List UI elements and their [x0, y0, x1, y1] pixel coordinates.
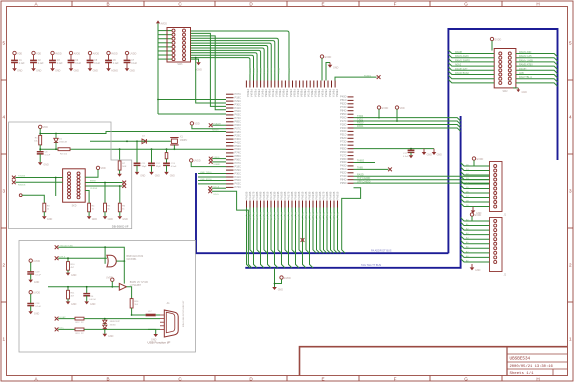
svg-text:PA16B: PA16B — [318, 191, 322, 199]
svg-text:PB03A: PB03A — [246, 89, 250, 97]
svg-text:PA16B: PA16B — [283, 191, 287, 199]
wire USB D- net — [198, 176, 226, 178]
svg-text:EVDD: EVDD — [475, 214, 482, 217]
svg-text:AD_B06: AD_B06 — [266, 212, 269, 221]
wire FUSE1 net — [335, 77, 377, 80]
wire — [127, 287, 132, 299]
power UVDD — [29, 291, 32, 294]
resistor R1 — [39, 135, 42, 145]
svg-text:4.5uF: 4.5uF — [171, 166, 177, 168]
svg-text:EVDD: EVDD — [477, 158, 484, 161]
power EVDD — [320, 55, 323, 58]
svg-text:0.1uF: 0.1uF — [38, 63, 44, 65]
svg-text:NXXD: NXXD — [110, 325, 116, 327]
power EVDD — [280, 276, 283, 279]
wire TXD — [15, 177, 62, 179]
wire — [166, 165, 168, 172]
wire — [158, 38, 172, 40]
wire — [104, 329, 106, 333]
svg-text:DB-9SKD I/F: DB-9SKD I/F — [112, 225, 129, 229]
svg-text:UVDD: UVDD — [106, 276, 113, 279]
svg-text:P40D: P40D — [340, 129, 347, 133]
wire — [89, 63, 91, 69]
svg-text:P28D: P28D — [340, 122, 347, 126]
svg-text:P73D: P73D — [340, 140, 347, 144]
svg-text:RAMD: RAMD — [519, 68, 527, 71]
group box DB-9SKD I/F — [9, 122, 132, 229]
ground — [28, 280, 33, 283]
svg-text:TA6B2: TA6B2 — [357, 160, 365, 163]
svg-text:SW2: SW2 — [503, 91, 509, 93]
svg-text:61XXXB1: 61XXXB1 — [127, 259, 138, 261]
wire — [158, 58, 172, 60]
svg-text:AD_B05: AD_B05 — [263, 212, 266, 221]
svg-text:PD09: PD09 — [255, 68, 257, 74]
wire bundle U1 right to J1 — [354, 175, 490, 177]
wire — [58, 257, 107, 259]
svg-text:P95D: P95D — [340, 181, 347, 185]
ground — [423, 149, 425, 152]
svg-text:PA05B: PA05B — [314, 191, 318, 199]
power UVDD — [111, 278, 114, 281]
svg-text:SW1: SW1 — [177, 63, 183, 66]
svg-text:GND: GND — [427, 153, 433, 156]
ground — [12, 68, 17, 71]
svg-text:PB03A: PB03A — [282, 89, 286, 97]
svg-text:UVDD: UVDD — [130, 52, 137, 55]
svg-text:P41C: P41C — [235, 106, 242, 110]
svg-text:AD_B00: AD_B00 — [245, 212, 248, 221]
svg-text:PB47A: PB47A — [260, 89, 264, 97]
svg-text:UVDD: UVDD — [33, 260, 40, 263]
svg-text:VDD: VDD — [43, 126, 48, 129]
svg-text:TAG_T4: TAG_T4 — [315, 212, 318, 221]
capacitor C17 — [410, 149, 412, 151]
svg-text:P41C: P41C — [235, 175, 242, 179]
svg-text:RAM8: RAM8 — [455, 51, 463, 54]
no-connect mark — [208, 186, 212, 190]
ground — [272, 287, 277, 290]
svg-text:P96C: P96C — [235, 158, 242, 162]
ground — [38, 162, 43, 165]
svg-text:GND: GND — [475, 269, 481, 272]
svg-text:PB58A: PB58A — [335, 89, 339, 97]
capacitor C16 — [83, 294, 90, 296]
svg-text:PD06: PD06 — [266, 68, 268, 74]
ground — [153, 334, 158, 337]
svg-text:2: 2 — [3, 263, 6, 268]
svg-text:RAM5 A7B0: RAM5 A7B0 — [519, 64, 533, 67]
wire — [136, 165, 138, 172]
wire USB D+ net — [198, 173, 226, 175]
svg-text:P07C: P07C — [235, 127, 242, 131]
wire — [67, 258, 69, 261]
net labels on fan wires — [248, 68, 289, 75]
svg-text:P62D: P62D — [340, 102, 347, 106]
svg-text:RAM1 SWR5: RAM1 SWR5 — [455, 59, 470, 62]
svg-text:CLKSK: CLKSK — [90, 188, 98, 190]
svg-text:GND: GND — [43, 164, 49, 167]
svg-text:P52C: P52C — [235, 144, 242, 148]
svg-text:GND: GND — [170, 175, 175, 177]
wire — [354, 161, 376, 163]
wire — [14, 63, 16, 69]
svg-text:VDD: VDD — [195, 123, 200, 126]
ground — [28, 311, 33, 314]
svg-text:P30C: P30C — [235, 137, 242, 141]
svg-text:GND: GND — [34, 313, 40, 316]
node — [19, 194, 22, 197]
svg-text:AVDD: AVDD — [111, 52, 118, 55]
bus address bus lower — [196, 173, 448, 253]
no-connect mark — [208, 189, 212, 193]
power UVDD — [190, 159, 193, 162]
svg-text:2000/05/21 13:30:16: 2000/05/21 13:30:16 — [510, 364, 554, 369]
svg-text:P73D: P73D — [340, 174, 347, 178]
connector X2 DIN — [63, 169, 86, 202]
capacitor C1 — [11, 60, 18, 62]
svg-text:PB36A: PB36A — [292, 89, 296, 97]
svg-text:PB25A: PB25A — [289, 89, 293, 97]
diode D3 — [104, 324, 106, 326]
svg-text:BNP4 AC1XX32: BNP4 AC1XX32 — [127, 255, 144, 258]
wire XTAL1 net — [90, 140, 171, 142]
capacitor C13 — [166, 159, 168, 164]
svg-text:5: 5 — [569, 41, 572, 46]
svg-text:PB81A: PB81A — [310, 89, 314, 97]
wire — [67, 287, 69, 291]
svg-text:PB69A: PB69A — [268, 89, 272, 97]
resistor R7 — [119, 149, 121, 161]
wire — [126, 63, 128, 69]
wire — [378, 109, 380, 117]
svg-text:PB25A: PB25A — [324, 89, 328, 97]
wire — [136, 141, 138, 163]
svg-text:GND: GND — [47, 218, 53, 221]
bus data bus lower — [245, 116, 460, 268]
resistor R4 — [88, 203, 91, 212]
wire — [84, 328, 160, 330]
svg-text:RAM2 B0A0: RAM2 B0A0 — [455, 72, 469, 75]
ground — [135, 172, 140, 175]
wire — [151, 149, 153, 163]
svg-text:UVDD: UVDD — [194, 160, 201, 163]
svg-text:PA61B: PA61B — [265, 191, 269, 199]
svg-text:PA61B: PA61B — [335, 191, 339, 199]
svg-text:UD+5: UD+5 — [214, 186, 220, 188]
wire — [22, 195, 44, 203]
svg-text:PA49B: PA49B — [293, 191, 297, 199]
svg-text:GND: GND — [17, 70, 23, 73]
no-connect mark — [55, 256, 59, 260]
ground — [433, 149, 435, 152]
svg-text:P84D: P84D — [340, 178, 347, 182]
wire — [108, 63, 110, 69]
svg-text:P63C: P63C — [235, 182, 242, 186]
wire — [39, 129, 41, 136]
svg-text:TAG_T1: TAG_T1 — [305, 212, 308, 221]
svg-text:AD_B12: AD_B12 — [287, 212, 290, 221]
svg-text:GND: GND — [155, 175, 160, 177]
svg-text:Sheets 1/1: Sheets 1/1 — [510, 371, 535, 376]
svg-text:P73D: P73D — [340, 105, 347, 109]
wire — [55, 178, 57, 197]
svg-text:RESET: RESET — [212, 130, 220, 132]
svg-text:UD-5: UD-5 — [214, 194, 220, 196]
svg-text:P29C: P29C — [235, 99, 242, 103]
svg-text:TAG_T0: TAG_T0 — [301, 212, 304, 221]
wire — [158, 30, 172, 32]
svg-text:RAM1 A0D: RAM1 A0D — [519, 51, 532, 54]
capacitor C4 — [68, 60, 75, 62]
resistor R10 — [67, 262, 70, 271]
svg-text:P85C: P85C — [235, 154, 242, 158]
svg-text:R2 10k: R2 10k — [60, 153, 68, 155]
svg-text:H: H — [536, 376, 539, 381]
wire — [52, 63, 54, 69]
wire — [119, 170, 121, 174]
wire to U1 left pin RXD — [196, 58, 226, 103]
svg-text:TAG_T2: TAG_T2 — [308, 212, 311, 221]
wire — [108, 55, 110, 61]
resistor R2 — [58, 148, 70, 151]
svg-text:P17D: P17D — [340, 119, 347, 123]
no-connect mark — [388, 167, 392, 171]
svg-text:P63C: P63C — [235, 113, 242, 117]
svg-text:GND: GND — [74, 70, 80, 73]
svg-text:PB58A: PB58A — [299, 89, 303, 97]
ground — [87, 216, 92, 219]
connector J2 — [490, 218, 503, 272]
svg-text:VBUS: VBUS — [214, 157, 220, 159]
power AVDD — [156, 20, 160, 23]
svg-text:AD_B07: AD_B07 — [270, 212, 273, 221]
connector SW2 — [494, 49, 516, 88]
svg-text:P40D: P40D — [340, 164, 347, 168]
connector J1 — [490, 162, 503, 212]
svg-text:AVDD: AVDD — [161, 23, 168, 26]
wire to U1 left pin — [157, 100, 159, 115]
svg-text:GND: GND — [108, 218, 114, 221]
ground — [118, 216, 123, 219]
svg-text:GND: GND — [122, 218, 128, 221]
wire bundle U1 bottom to buses — [247, 208, 250, 268]
wire — [58, 318, 75, 320]
svg-text:4.5uF: 4.5uF — [403, 156, 409, 158]
svg-text:UFP CA6DD: UFP CA6DD — [357, 180, 371, 183]
svg-text:PA27B: PA27B — [286, 191, 290, 199]
svg-text:16MHz: 16MHz — [180, 140, 188, 142]
ground — [69, 68, 74, 71]
ground — [66, 273, 71, 276]
power AVDD — [69, 51, 72, 54]
group box USB Function I/F — [19, 241, 196, 353]
svg-text:SKD: SKD — [72, 206, 77, 208]
svg-text:0.1uF: 0.1uF — [19, 63, 25, 65]
svg-text:AD_B08: AD_B08 — [273, 212, 276, 221]
svg-text:P06D: P06D — [340, 115, 347, 119]
resistor R5 — [104, 203, 107, 212]
wire — [132, 314, 146, 316]
svg-text:P07C: P07C — [235, 92, 242, 96]
svg-text:VDD: VDD — [17, 52, 22, 55]
wire to U1 left pin — [158, 99, 226, 101]
svg-text:P29C: P29C — [235, 133, 242, 137]
svg-text:AD_B15: AD_B15 — [298, 212, 301, 221]
svg-text:RAM1 A0A6: RAM1 A0A6 — [455, 55, 469, 58]
svg-text:0.1uF: 0.1uF — [35, 275, 41, 277]
svg-text:PD08: PD08 — [259, 68, 261, 74]
svg-text:PA50B: PA50B — [332, 191, 336, 199]
capacitor C5 — [87, 60, 94, 62]
svg-text:PA50B: PA50B — [297, 191, 301, 199]
logic gate U3 buffer — [119, 283, 126, 290]
wire — [151, 165, 153, 172]
svg-text:GND: GND — [93, 70, 99, 73]
logic gate U2 — [107, 255, 116, 267]
svg-text:AVDD: AVDD — [55, 52, 62, 55]
ground — [471, 264, 473, 267]
wire — [156, 314, 160, 316]
svg-text:PB70A: PB70A — [271, 89, 275, 97]
wire — [58, 247, 124, 261]
wire XTAL2 net — [70, 148, 226, 150]
wire — [116, 260, 124, 262]
svg-text:GND: GND — [151, 338, 157, 341]
svg-text:P84D: P84D — [340, 109, 347, 113]
no-connect mark — [12, 176, 16, 180]
svg-text:USBID: USBID — [214, 164, 221, 166]
svg-text:PB92A: PB92A — [314, 89, 318, 97]
resistor R12 — [75, 317, 84, 320]
resistor R11 — [67, 290, 70, 299]
svg-text:GND: GND — [71, 274, 77, 277]
no-connect mark — [55, 245, 59, 249]
wire — [70, 55, 72, 61]
wire — [85, 191, 89, 204]
svg-text:GND: GND — [34, 281, 40, 284]
svg-text:GND: GND — [522, 91, 528, 94]
wire — [58, 328, 75, 330]
wire — [321, 58, 323, 80]
wire RESET net — [56, 132, 226, 134]
svg-text:AD_B11: AD_B11 — [284, 212, 287, 221]
svg-text:G: G — [464, 2, 468, 7]
svg-text:USB_TXD0: USB_TXD0 — [200, 172, 212, 174]
capacitor C19 — [27, 272, 34, 274]
svg-text:P29C: P29C — [235, 168, 242, 172]
inductor L1 ferrite — [146, 314, 156, 317]
ground AGND — [191, 59, 199, 62]
power EVDD — [470, 213, 473, 216]
svg-text:P51D: P51D — [340, 167, 347, 171]
svg-text:VDD: VDD — [400, 107, 405, 110]
svg-text:PB70A: PB70A — [307, 89, 311, 97]
svg-text:PA50B: PA50B — [262, 191, 266, 199]
ground — [513, 87, 518, 89]
svg-text:2: 2 — [569, 263, 572, 268]
wire — [43, 212, 45, 216]
power VDD — [96, 166, 99, 169]
wire AVDD rail — [157, 23, 159, 99]
wire — [491, 41, 493, 51]
svg-text:EVDD: EVDD — [325, 56, 332, 59]
wire — [119, 186, 121, 203]
svg-text:GND: GND — [90, 303, 96, 306]
svg-text:P30C: P30C — [235, 171, 242, 175]
svg-text:P41C: P41C — [235, 140, 242, 144]
svg-text:1N4148: 1N4148 — [59, 142, 67, 144]
bus ram bus top right — [448, 29, 557, 253]
svg-text:P52C: P52C — [235, 109, 242, 113]
svg-text:56R: 56R — [122, 166, 126, 168]
svg-text:PB14A: PB14A — [285, 89, 289, 97]
svg-text:FUSE1: FUSE1 — [364, 75, 372, 77]
resistor R13 — [75, 328, 84, 331]
capacitor C6 — [105, 60, 112, 62]
ground — [410, 152, 412, 155]
wire staircase bottom right — [342, 188, 361, 254]
no-connect mark — [377, 75, 381, 79]
resistor R14 — [130, 299, 133, 308]
svg-text:PA72B: PA72B — [304, 191, 308, 199]
wire — [111, 281, 113, 286]
capacitor C11 — [134, 163, 141, 165]
svg-text:3: 3 — [569, 189, 572, 194]
resistor R6 — [118, 203, 121, 212]
wire — [472, 216, 490, 221]
wire — [67, 270, 69, 272]
wire — [70, 63, 72, 69]
wire GND stem below bus — [274, 268, 276, 287]
power VDD — [13, 51, 16, 54]
svg-text:AD_B02: AD_B02 — [252, 212, 255, 221]
svg-text:P51D: P51D — [340, 98, 347, 102]
wire CLKSK — [85, 185, 122, 187]
ground — [103, 334, 108, 337]
capacitor C12 — [148, 163, 155, 165]
svg-text:EVDD: EVDD — [382, 107, 389, 110]
svg-text:P17D: P17D — [340, 153, 347, 157]
wire — [275, 279, 282, 283]
power AVDD — [88, 51, 91, 54]
svg-text:P39D: P39D — [340, 126, 347, 130]
svg-text:F: F — [394, 2, 397, 7]
svg-text:TAG_T5: TAG_T5 — [319, 212, 322, 221]
svg-text:P96C: P96C — [235, 123, 242, 127]
power VDD — [395, 106, 398, 109]
svg-text:33pF: 33pF — [142, 166, 148, 168]
power VDD — [32, 51, 35, 54]
wire — [14, 55, 16, 61]
svg-text:PA49B: PA49B — [258, 191, 262, 199]
no-connect mark — [122, 184, 126, 188]
svg-text:PB69A: PB69A — [303, 89, 307, 97]
svg-text:AVDD: AVDD — [93, 52, 100, 55]
svg-text:P18C: P18C — [235, 96, 242, 100]
wire — [104, 183, 106, 204]
svg-text:P62D: P62D — [340, 136, 347, 140]
svg-text:F: F — [394, 376, 397, 381]
wire — [192, 125, 226, 129]
svg-text:PD010: PD010 — [252, 68, 254, 75]
wire FLASH — [212, 124, 226, 126]
power UVDD — [125, 51, 128, 54]
wire — [85, 170, 98, 178]
capacitor C3 — [49, 60, 56, 62]
capacitor C18 — [27, 304, 34, 306]
wire bundle ram bus to SW2 — [448, 50, 494, 53]
